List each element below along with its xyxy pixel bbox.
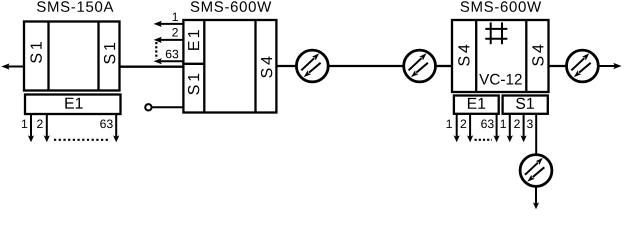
cross-connect matrix symbol bbox=[485, 22, 507, 44]
optical line interface 1 bbox=[296, 50, 328, 82]
optical line interface 4 bbox=[520, 155, 552, 187]
east mux E1 arrow 1 bbox=[454, 115, 460, 143]
west mux tributary arrow 2 bbox=[154, 37, 183, 43]
east mux S1 arrow 1 bbox=[507, 115, 513, 143]
tributary unit E1 label bbox=[65, 98, 82, 109]
west mux port S1 label bbox=[188, 74, 199, 95]
optical drop arrow down bbox=[533, 187, 539, 210]
east mux tributary unit E1 label bbox=[468, 98, 485, 109]
tributary arrow 2 bbox=[44, 115, 50, 143]
east mux tributary unit S1 box bbox=[503, 96, 548, 114]
tributary arrow 1 bbox=[28, 115, 34, 143]
tributary arrow 63 bbox=[113, 115, 119, 143]
wire west mux S4 to optical interface 1 bbox=[278, 65, 297, 67]
wire optical interface 1 to 2 bbox=[329, 65, 404, 67]
wire SMS-150A S1 to SMS-600W bbox=[120, 66, 183, 68]
west mux S4 column divider bbox=[254, 19, 256, 114]
west mux tributary ellipsis dotted line bbox=[155, 42, 157, 59]
east mux S1 port 3 wire down bbox=[535, 115, 537, 155]
west mux port E1 label bbox=[188, 30, 199, 50]
east mux E1 arrow 2 bbox=[467, 115, 473, 143]
multiplexer SMS-600W west title bbox=[191, 1, 272, 12]
east mux S1 arrow 2 bbox=[521, 115, 527, 143]
wire east mux S4 to optical interface 3 bbox=[549, 65, 568, 67]
east mux E1 ellipsis dotted line bbox=[475, 139, 493, 141]
tributary label 63 bbox=[100, 120, 112, 129]
west mux tributary label 1 bbox=[173, 13, 178, 21]
wire optical interface 2 to east mux bbox=[436, 65, 452, 67]
east mux E1 label 2 bbox=[461, 120, 467, 129]
multiplexer SMS-600W west main box bbox=[183, 20, 276, 113]
optical line interface 2 bbox=[404, 50, 436, 82]
west mux tributary column divider bbox=[203, 19, 205, 114]
east mux E1 arrow 63 bbox=[494, 115, 500, 143]
tributary label 2 bbox=[37, 120, 43, 129]
multiplexer SMS-150A main box bbox=[24, 22, 120, 91]
multiplexer SMS-150A title bbox=[37, 1, 113, 12]
west mux tributary arrow 1 bbox=[154, 21, 183, 27]
port S1 left label bbox=[30, 42, 41, 63]
west mux tributary label 2 bbox=[172, 28, 178, 37]
east mux S1 label 1 bbox=[501, 120, 506, 128]
west mux tributary arrow 63 bbox=[154, 58, 183, 64]
aggregate card divider right bbox=[97, 21, 99, 92]
east mux right S4 column divider bbox=[525, 19, 527, 93]
optical line interface 3 bbox=[567, 50, 599, 82]
east mux E1 label 63 bbox=[481, 120, 493, 129]
east mux S1 label 3 bbox=[527, 120, 533, 129]
tributary label 1 bbox=[22, 120, 27, 128]
multiplexer SMS-600W east title bbox=[461, 1, 542, 12]
west aggregate output arrow bbox=[1, 63, 23, 69]
east aggregate output arrow bbox=[598, 63, 621, 69]
west mux port S4 label bbox=[261, 56, 272, 77]
west mux E1/S1 cell divider bbox=[182, 63, 204, 65]
multiplexer SMS-600W east main box bbox=[452, 20, 549, 92]
unconnected port open circle bbox=[145, 104, 151, 110]
tributary ellipsis dotted line bbox=[54, 139, 109, 141]
tributary unit E1 box bbox=[25, 95, 121, 115]
east mux tributary unit E1 box bbox=[454, 96, 499, 114]
east mux port S4 left label bbox=[458, 45, 469, 66]
wire open circle to port S1 bbox=[152, 106, 183, 108]
aggregate card divider left bbox=[47, 21, 49, 92]
east mux E1 label 1 bbox=[447, 120, 452, 128]
cross-connect VC-12 label bbox=[479, 74, 521, 85]
east mux left S4 column divider bbox=[475, 19, 477, 93]
port S1 right label bbox=[104, 43, 115, 64]
west mux tributary label 63 bbox=[166, 50, 178, 59]
east mux tributary unit S1 label bbox=[516, 98, 534, 109]
east mux port S4 right label bbox=[532, 45, 543, 66]
east mux S1 label 2 bbox=[514, 120, 520, 129]
